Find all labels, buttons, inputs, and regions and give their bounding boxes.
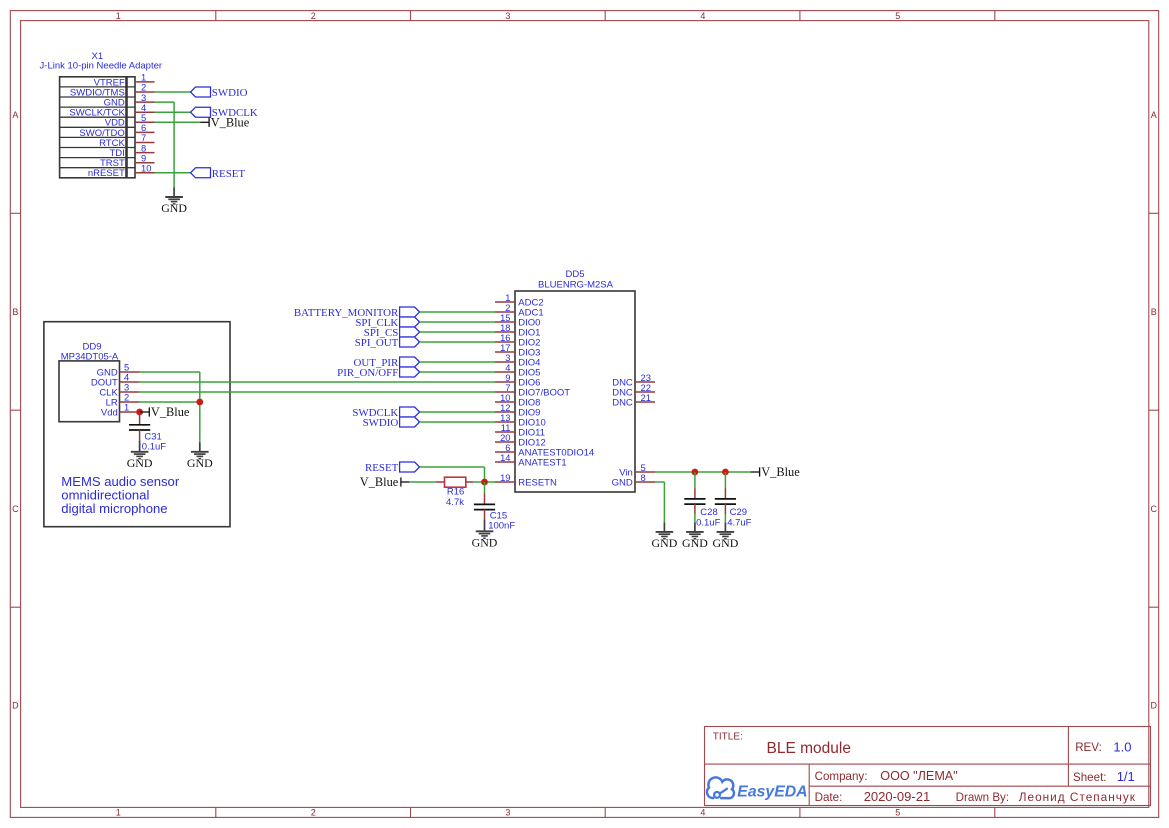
pin 9 of X1 bbox=[135, 152, 155, 163]
wire SPI_CS flag to DD5 bbox=[420, 331, 495, 333]
wire SPI_CLK flag to DD5 bbox=[420, 321, 495, 323]
svg-text:J-Link 10-pin Needle Adapter: J-Link 10-pin Needle Adapter bbox=[40, 61, 163, 72]
capacitor C29 top wire bbox=[724, 472, 726, 488]
svg-text:GND: GND bbox=[127, 456, 153, 470]
net label V_Blue at R16 bbox=[360, 475, 401, 489]
svg-text:ANATEST1: ANATEST1 bbox=[518, 457, 566, 468]
frame row labels left bbox=[12, 110, 19, 710]
net flag RESET bbox=[191, 168, 246, 180]
svg-text:GND: GND bbox=[713, 536, 739, 550]
svg-text:1/1: 1/1 bbox=[1117, 769, 1135, 784]
wire DD9 GND pin to vertical bbox=[140, 371, 200, 373]
pin 4 of X1 bbox=[135, 102, 155, 113]
svg-text:GND: GND bbox=[472, 535, 498, 549]
capacitor C28 top lead bbox=[694, 488, 696, 499]
component DD9 body bbox=[59, 361, 120, 422]
svg-text:SWDIO: SWDIO bbox=[363, 417, 399, 429]
svg-text:A: A bbox=[1151, 110, 1157, 120]
svg-text:Company:: Company: bbox=[815, 770, 868, 783]
wire DD5 GND pin vertical bbox=[663, 482, 665, 522]
net flag SPI_CS bbox=[364, 327, 420, 339]
svg-text:EasyEDA: EasyEDA bbox=[737, 784, 807, 801]
frame column ticks top bbox=[216, 11, 995, 21]
svg-text:21: 21 bbox=[641, 392, 651, 403]
frame row ticks right bbox=[1149, 213, 1159, 607]
svg-text:3: 3 bbox=[505, 11, 510, 21]
pin 7 (DIO7/BOOT) of DD5 bbox=[495, 382, 570, 399]
wire vertical at DD9 right bbox=[199, 372, 201, 442]
wire BATTERY_MONITOR flag to DD5 bbox=[420, 311, 495, 313]
svg-text:2: 2 bbox=[311, 808, 316, 818]
frame column labels bottom bbox=[116, 808, 901, 818]
svg-text:GND: GND bbox=[682, 536, 708, 550]
pin 16 (DIO2) of DD5 bbox=[495, 332, 540, 349]
net flag SWDCLK bbox=[191, 107, 258, 119]
connector X1 pin names bbox=[69, 77, 125, 179]
pin 17 (DIO3) of DD5 bbox=[495, 342, 540, 359]
capacitor C31 top lead bbox=[139, 412, 141, 425]
pin 5 (Vin) of DD5 bbox=[619, 462, 655, 479]
net label V_Blue at Vin bbox=[760, 465, 801, 479]
svg-text:4: 4 bbox=[700, 11, 705, 21]
wire X1 pin5 to V_Blue bbox=[155, 121, 201, 123]
frame column ticks bottom bbox=[216, 807, 995, 817]
ground GND right of C31 bbox=[187, 452, 213, 470]
capacitor C15 plates bbox=[474, 504, 495, 509]
pin 14 (ANATEST1) of DD5 bbox=[495, 452, 567, 469]
net flag RESET at DD5 bbox=[365, 462, 420, 474]
pin 3 of X1 bbox=[135, 92, 155, 103]
svg-text:D: D bbox=[12, 701, 19, 711]
pin 3 (CLK) of DD9 bbox=[99, 382, 139, 399]
svg-text:GND: GND bbox=[612, 477, 633, 488]
svg-text:19: 19 bbox=[500, 472, 510, 483]
svg-text:0.1uF: 0.1uF bbox=[142, 441, 166, 452]
net flag OUT_PIR bbox=[354, 357, 420, 369]
svg-text:5: 5 bbox=[895, 808, 900, 818]
svg-text:RESETN: RESETN bbox=[518, 477, 557, 488]
svg-text:2020-09-21: 2020-09-21 bbox=[864, 789, 931, 804]
MEMS description text bbox=[61, 474, 180, 516]
IC DD5 body bbox=[515, 291, 635, 492]
capacitor C15 top lead bbox=[484, 493, 486, 504]
capacitor C29 bottom lead bbox=[724, 504, 726, 514]
pin 5 (GND) of DD9 bbox=[97, 362, 140, 379]
svg-text:digital microphone: digital microphone bbox=[61, 501, 167, 516]
svg-text:0.1uF: 0.1uF bbox=[696, 518, 720, 529]
ground GND below C15 bbox=[472, 531, 498, 549]
EasyEDA logo bbox=[707, 777, 808, 800]
svg-text:4: 4 bbox=[700, 808, 705, 818]
capacitor C28 bottom wire bbox=[694, 514, 696, 522]
svg-text:1: 1 bbox=[116, 808, 121, 818]
ground stub below DD5 GND bbox=[663, 522, 665, 532]
pin 7 of X1 bbox=[135, 132, 155, 143]
frame row ticks left bbox=[10, 213, 20, 607]
wire X1 pin10 to RESET flag bbox=[155, 172, 191, 174]
pin 20 (DIO12) of DD5 bbox=[495, 432, 546, 449]
svg-text:1.0: 1.0 bbox=[1113, 739, 1131, 754]
pin 21 (DNC) of DD5 bbox=[612, 392, 655, 409]
wire X1 pin3 to ground (horizontal) bbox=[155, 101, 175, 103]
svg-text:B: B bbox=[12, 307, 18, 317]
svg-text:GND: GND bbox=[187, 456, 213, 470]
pin 8 of X1 bbox=[135, 142, 155, 153]
wire X1 pin3 to ground (vertical) bbox=[173, 102, 175, 187]
net flag PIR_ON/OFF bbox=[337, 367, 419, 379]
junction at C29 bbox=[722, 469, 729, 476]
pin 2 (LR) of DD9 bbox=[106, 392, 140, 409]
ground stub below C29 bbox=[724, 522, 726, 532]
net label V_Blue stub at Vin bbox=[751, 471, 760, 473]
wire DD9 CLK to DD5 DIO7 bbox=[140, 391, 495, 393]
wire R16 to RESETN pin bbox=[473, 481, 495, 483]
pin 6 of X1 bbox=[135, 122, 155, 133]
svg-text:GND: GND bbox=[161, 201, 187, 215]
wire RESET flag vertical to RESETN net bbox=[484, 467, 486, 482]
svg-text:1: 1 bbox=[116, 11, 121, 21]
svg-text:ООО "ЛЕМА": ООО "ЛЕМА" bbox=[880, 769, 957, 783]
pin 9 (DIO6) of DD5 bbox=[495, 372, 540, 389]
net flag SWDIO bbox=[363, 417, 420, 429]
frame column labels top bbox=[116, 11, 901, 21]
pin 1 of X1 bbox=[135, 72, 155, 83]
wire SPI_OUT flag to DD5 bbox=[420, 341, 495, 343]
svg-text:A: A bbox=[12, 110, 18, 120]
wire V_Blue to R16 bbox=[410, 481, 436, 483]
ground stub below X1 bbox=[173, 187, 175, 197]
net flag SWDIO bbox=[191, 87, 248, 99]
pin 22 (DNC) of DD5 bbox=[612, 382, 655, 399]
MEMS sensor enclosure box bbox=[44, 322, 230, 527]
pin 1 (Vdd) of DD9 bbox=[101, 402, 140, 419]
wire X1 pin2 to SWDIO flag bbox=[155, 91, 191, 93]
svg-text:TITLE:: TITLE: bbox=[713, 732, 743, 743]
svg-text:8: 8 bbox=[641, 472, 646, 483]
svg-text:4.7k: 4.7k bbox=[446, 497, 464, 508]
svg-text:D: D bbox=[1150, 701, 1157, 711]
pin 4 (DIO5) of DD5 bbox=[495, 362, 540, 379]
svg-text:100nF: 100nF bbox=[488, 520, 515, 531]
svg-text:5: 5 bbox=[895, 11, 900, 21]
svg-text:BLE module: BLE module bbox=[767, 740, 851, 757]
svg-text:REV:: REV: bbox=[1075, 741, 1102, 754]
pin 11 (DIO11) of DD5 bbox=[495, 422, 545, 439]
pin 23 (DNC) of DD5 bbox=[612, 372, 655, 389]
svg-text:14: 14 bbox=[500, 452, 510, 463]
svg-text:1: 1 bbox=[124, 402, 129, 413]
title block logo divider bbox=[808, 764, 810, 805]
svg-text:Леонид Степанчук: Леонид Степанчук bbox=[1019, 790, 1136, 804]
svg-text:4.7uF: 4.7uF bbox=[727, 518, 751, 529]
capacitor C31 plates bbox=[129, 425, 150, 430]
svg-text:nRESET: nRESET bbox=[88, 168, 125, 179]
svg-text:2: 2 bbox=[311, 11, 316, 21]
ground GND below X1 bbox=[161, 197, 187, 215]
junction at DD9 Vdd bbox=[136, 409, 143, 416]
svg-text:SWDIO: SWDIO bbox=[212, 87, 248, 99]
pin 2 (ADC1) of DD5 bbox=[495, 302, 544, 319]
wire DD9 DOUT to DD5 DIO6 bbox=[140, 381, 495, 383]
capacitor C28 top wire bbox=[694, 472, 696, 488]
wire DD5 GND pin horizontal bbox=[655, 481, 664, 483]
svg-text:V_Blue: V_Blue bbox=[151, 405, 190, 419]
svg-text:Sheet:: Sheet: bbox=[1073, 771, 1107, 784]
svg-text:V_Blue: V_Blue bbox=[211, 116, 250, 130]
svg-text:BLUENRG-M2SA: BLUENRG-M2SA bbox=[538, 279, 614, 290]
ground GND below C28 bbox=[682, 532, 708, 550]
ground GND below DD5 bbox=[652, 532, 678, 550]
capacitor C31 bottom lead bbox=[139, 430, 141, 441]
junction at DD9 LR bbox=[196, 399, 203, 406]
wire X1 pin4 to SWDCLK flag bbox=[155, 111, 191, 113]
net label V_Blue at DD9 bbox=[149, 405, 190, 419]
title block outer box bbox=[705, 727, 1151, 806]
wire SWDIO flag to DD5 bbox=[420, 421, 495, 423]
pin 19 (RESETN) of DD5 bbox=[495, 472, 557, 489]
svg-text:V_Blue: V_Blue bbox=[360, 475, 399, 489]
title block company/date divider bbox=[809, 785, 1150, 787]
net label V_Blue stub at R16 bbox=[401, 481, 410, 483]
net flag BATTERY_MONITOR bbox=[294, 307, 420, 319]
pin 1 (ADC2) of DD5 bbox=[495, 292, 544, 309]
wire Vin to V_Blue bbox=[655, 471, 751, 473]
wire RESET flag horizontal bbox=[420, 466, 485, 468]
svg-text:RESET: RESET bbox=[365, 462, 399, 474]
svg-text:3: 3 bbox=[505, 808, 510, 818]
connector X1 body bbox=[60, 77, 135, 178]
pin 5 of X1 bbox=[135, 112, 155, 123]
svg-text:10: 10 bbox=[141, 163, 151, 174]
pin 8 (GND) of DD5 bbox=[612, 472, 655, 489]
ground stub below C28 bbox=[694, 522, 696, 532]
capacitor C29 bottom wire bbox=[724, 514, 726, 522]
svg-text:PIR_ON/OFF: PIR_ON/OFF bbox=[337, 367, 398, 379]
net flag SPI_CLK bbox=[355, 317, 419, 329]
svg-text:Vdd: Vdd bbox=[101, 407, 118, 418]
frame row labels right bbox=[1150, 110, 1157, 710]
title block REV/Sheet divider bbox=[1067, 727, 1069, 787]
svg-text:DNC: DNC bbox=[612, 397, 633, 408]
net flag SWDCLK bbox=[352, 407, 419, 419]
pin 12 (DIO9) of DD5 bbox=[495, 402, 540, 419]
pin 18 (DIO1) of DD5 bbox=[495, 322, 540, 339]
ground stub below DD9 right bbox=[199, 442, 201, 452]
net label V_Blue at X1 bbox=[209, 116, 250, 130]
pin 6 (ANATEST0DIO14) of DD5 bbox=[495, 442, 594, 459]
wire SWDCLK flag to DD5 bbox=[420, 411, 495, 413]
ground GND below C31 bbox=[127, 452, 153, 470]
resistor R16 bbox=[436, 477, 474, 487]
pin 10 (DIO8) of DD5 bbox=[495, 392, 540, 409]
wire OUT_PIR flag to DD5 bbox=[420, 361, 495, 363]
svg-text:RESET: RESET bbox=[212, 168, 246, 180]
ground GND below C29 bbox=[713, 532, 739, 550]
svg-text:Date:: Date: bbox=[815, 791, 843, 804]
svg-text:GND: GND bbox=[652, 536, 678, 550]
pin 15 (DIO0) of DD5 bbox=[495, 312, 540, 329]
wire DD9 LR pin to junction bbox=[140, 401, 200, 403]
pin 2 of X1 bbox=[135, 82, 155, 93]
pin 13 (DIO10) of DD5 bbox=[495, 412, 546, 429]
svg-text:SPI_OUT: SPI_OUT bbox=[355, 337, 399, 349]
capacitor C28 plates bbox=[684, 499, 705, 504]
svg-text:C: C bbox=[1150, 504, 1157, 514]
ground stub below C31 bbox=[139, 441, 141, 452]
pin 4 (DOUT) of DD9 bbox=[91, 372, 140, 389]
junction at RESETN net bbox=[481, 479, 488, 486]
capacitor C29 plates bbox=[715, 499, 736, 504]
wire PIR_ON/OFF flag to DD5 bbox=[420, 371, 495, 373]
capacitor C15 bottom lead bbox=[484, 510, 486, 520]
svg-text:C: C bbox=[12, 504, 19, 514]
net label V_Blue stub at DD9 bbox=[140, 411, 150, 413]
net label V_Blue stub at X1 bbox=[200, 121, 209, 123]
capacitor C29 top lead bbox=[724, 488, 726, 499]
capacitor C28 bottom lead bbox=[694, 504, 696, 514]
ground stub below C15 bbox=[484, 519, 486, 531]
title block horizontal divider bbox=[705, 763, 1151, 765]
capacitor C15 top wire bbox=[484, 482, 486, 493]
pin 3 (DIO4) of DD5 bbox=[495, 352, 540, 369]
net flag SPI_OUT bbox=[355, 337, 420, 349]
svg-text:B: B bbox=[1151, 307, 1157, 317]
svg-text:Drawn By:: Drawn By: bbox=[956, 791, 1009, 804]
pin 10 of X1 bbox=[135, 163, 155, 174]
svg-text:V_Blue: V_Blue bbox=[761, 465, 800, 479]
junction at C28 bbox=[692, 469, 699, 476]
